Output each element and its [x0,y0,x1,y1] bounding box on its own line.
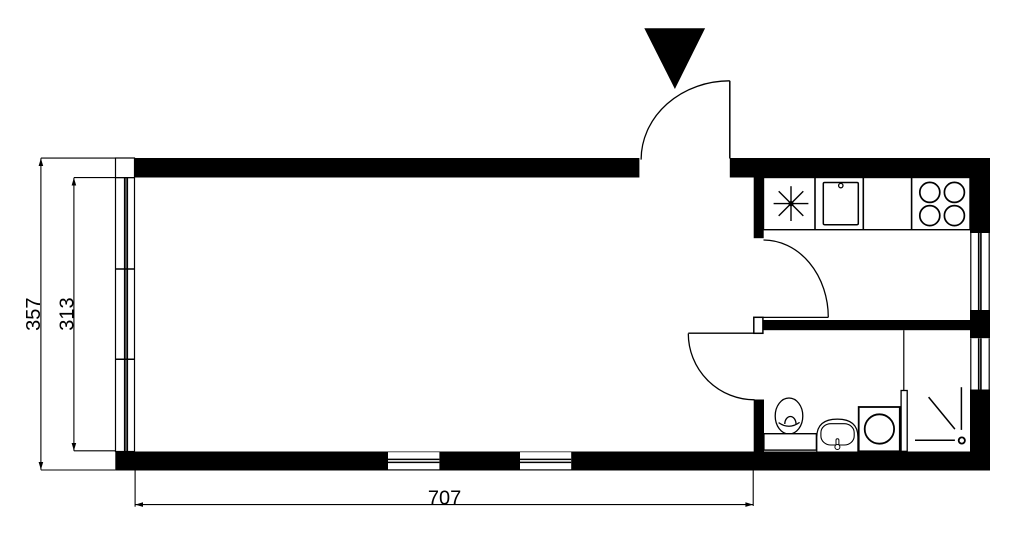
wall right mid segment [970,310,990,338]
right window kitchen [970,233,990,310]
svg-text:707: 707 [428,488,461,510]
dimension 357 [41,158,116,470]
bottom window 2 [520,452,571,469]
wall right lower segment [970,390,990,452]
wall top-left segment [135,158,640,178]
wall right upper segment [970,158,990,233]
left window mullion 2 [116,358,135,360]
right window bathroom [970,338,990,389]
counter divider 3 [911,178,913,230]
bottom window 1 [388,452,439,469]
kitchen counter outline [764,178,971,230]
kitchen sink [823,183,858,225]
appliance star symbol [774,186,809,221]
kitchen door threshold [764,316,829,318]
door jamb frame [754,317,763,333]
entry door leaf [729,81,731,159]
shower partition line [903,330,905,390]
svg-text:357: 357 [23,298,45,331]
cooktop burners [920,182,965,225]
toilet cistern [764,434,817,450]
entry door swing arc [641,81,730,160]
svg-text:313: 313 [56,297,78,330]
bathroom door leaf [688,332,754,334]
shower symbol [915,387,965,443]
bathroom door swing arc [688,334,754,400]
kitchen door swing arc [764,240,829,317]
wall top-right segment [730,158,990,178]
dimension 707 [135,471,753,507]
dimension 313 [74,178,135,451]
counter divider 2 [862,178,864,230]
shower partition wall [901,391,907,452]
wall bottom [115,452,990,471]
left window frame [116,158,135,452]
wall between kitchen and bathroom [764,320,991,330]
entrance arrow [644,28,705,89]
counter divider 1 [814,178,816,230]
toilet seat arcs [779,417,800,427]
wall between main room and kitchen [754,178,764,239]
washbasin [817,419,858,451]
toilet bowl [775,398,803,434]
wall between main room and bathroom [754,400,764,452]
washing machine [859,407,900,451]
left window glass [125,178,127,452]
left window mullion 1 [116,268,135,270]
